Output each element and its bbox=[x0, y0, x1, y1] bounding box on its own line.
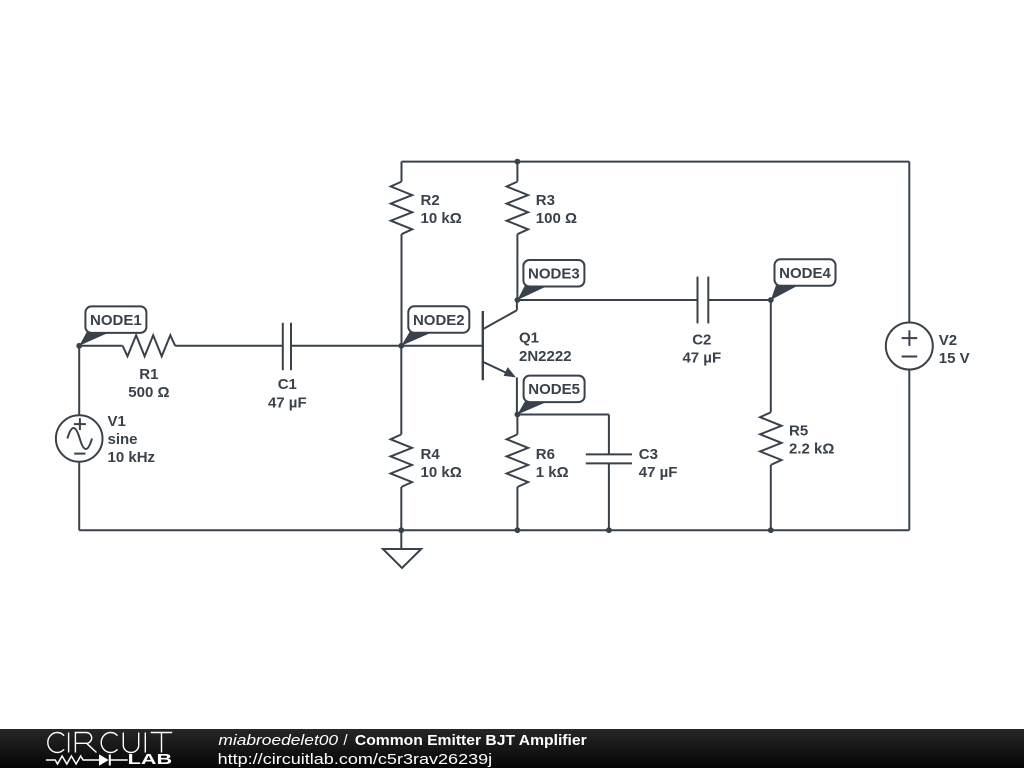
wire right rail upper (to V2) bbox=[908, 162, 910, 323]
resistor R1 500 Ω bbox=[79, 335, 283, 401]
resistor R4 10 kΩ bbox=[391, 346, 462, 530]
svg-text:10 kΩ: 10 kΩ bbox=[421, 464, 462, 481]
svg-text:2N2222: 2N2222 bbox=[519, 348, 572, 365]
transistor Q1 2N2222 bbox=[401, 300, 571, 415]
svg-text:C1: C1 bbox=[278, 376, 297, 393]
junction dot R6 bottom bbox=[515, 527, 521, 533]
junction dot NODE3 bbox=[515, 297, 521, 303]
resistor R3 100 Ω bbox=[507, 162, 577, 300]
svg-text:10 kHz: 10 kHz bbox=[108, 449, 156, 466]
svg-text:NODE4: NODE4 bbox=[779, 265, 831, 282]
svg-text:V2: V2 bbox=[939, 332, 957, 349]
svg-text:Q1: Q1 bbox=[519, 330, 539, 347]
node label NODE4 bbox=[771, 259, 836, 300]
svg-text:2.2 kΩ: 2.2 kΩ bbox=[789, 441, 834, 458]
svg-text:C2: C2 bbox=[692, 331, 711, 348]
junction dot C3 bottom bbox=[606, 527, 612, 533]
resistor R5 2.2 kΩ bbox=[760, 300, 834, 530]
svg-text:R1: R1 bbox=[139, 366, 158, 383]
capacitor C3 47 µF bbox=[517, 415, 677, 531]
wire top rail bbox=[402, 161, 910, 163]
capacitor C2 47 µF bbox=[517, 277, 770, 367]
svg-text:500 Ω: 500 Ω bbox=[128, 384, 169, 401]
svg-text:1 kΩ: 1 kΩ bbox=[536, 464, 569, 481]
svg-text:15 V: 15 V bbox=[939, 350, 970, 367]
resistor R6 1 kΩ bbox=[507, 415, 569, 531]
junction dot NODE4 bbox=[768, 297, 774, 303]
voltage source V1 sine 10 kHz bbox=[56, 413, 155, 466]
resistor R2 10 kΩ bbox=[391, 162, 462, 346]
svg-text:http://circuitlab.com/c5r3rav2: http://circuitlab.com/c5r3rav26239j bbox=[218, 751, 493, 768]
junction dot ground bbox=[398, 527, 404, 533]
svg-text:Common Emitter BJT Amplifier: Common Emitter BJT Amplifier bbox=[355, 732, 587, 749]
svg-text:NODE3: NODE3 bbox=[528, 266, 580, 283]
footer url line bbox=[218, 751, 493, 768]
svg-text:100 Ω: 100 Ω bbox=[536, 210, 577, 227]
footer logo CIRCUIT LAB bbox=[46, 733, 172, 768]
svg-text:10 kΩ: 10 kΩ bbox=[421, 210, 462, 227]
svg-text:47 µF: 47 µF bbox=[639, 464, 678, 481]
svg-text:V1: V1 bbox=[108, 413, 126, 430]
svg-text:R5: R5 bbox=[789, 422, 808, 439]
wire left rail lower (V1 to bottom) bbox=[78, 462, 80, 531]
svg-text:NODE5: NODE5 bbox=[528, 381, 580, 398]
svg-text:LAB: LAB bbox=[128, 752, 173, 768]
footer bar bbox=[0, 729, 1024, 768]
junction dot NODE2 bbox=[398, 343, 404, 349]
svg-text:R3: R3 bbox=[536, 192, 555, 209]
wire bottom rail bbox=[79, 529, 909, 531]
junction dot NODE1 bbox=[76, 343, 82, 349]
svg-text:R4: R4 bbox=[421, 446, 441, 463]
node label NODE1 bbox=[79, 306, 146, 345]
svg-text:C3: C3 bbox=[639, 446, 658, 463]
footer title line bbox=[218, 732, 586, 749]
wire right rail lower (V2 to bottom) bbox=[908, 369, 910, 530]
capacitor C1 47 µF bbox=[268, 323, 401, 412]
svg-text:miabroedelet00: miabroedelet00 bbox=[218, 732, 338, 749]
svg-text:R6: R6 bbox=[536, 446, 555, 463]
svg-text:NODE1: NODE1 bbox=[90, 312, 142, 329]
junction dot NODE5 bbox=[515, 412, 521, 418]
svg-text:47 µF: 47 µF bbox=[682, 350, 721, 367]
node label NODE5 bbox=[517, 376, 584, 415]
svg-text:R2: R2 bbox=[421, 192, 440, 209]
wire left rail upper (NODE1 to V1) bbox=[78, 346, 80, 416]
svg-text:sine: sine bbox=[108, 431, 138, 448]
node label NODE2 bbox=[401, 306, 469, 346]
svg-text:NODE2: NODE2 bbox=[413, 312, 465, 329]
svg-text:47 µF: 47 µF bbox=[268, 394, 307, 411]
ground bbox=[383, 530, 421, 568]
node label NODE3 bbox=[517, 260, 584, 300]
junction dot top rail bbox=[515, 159, 521, 165]
voltage source V2 15 V bbox=[886, 323, 970, 370]
junction dot R5 bottom bbox=[768, 527, 774, 533]
